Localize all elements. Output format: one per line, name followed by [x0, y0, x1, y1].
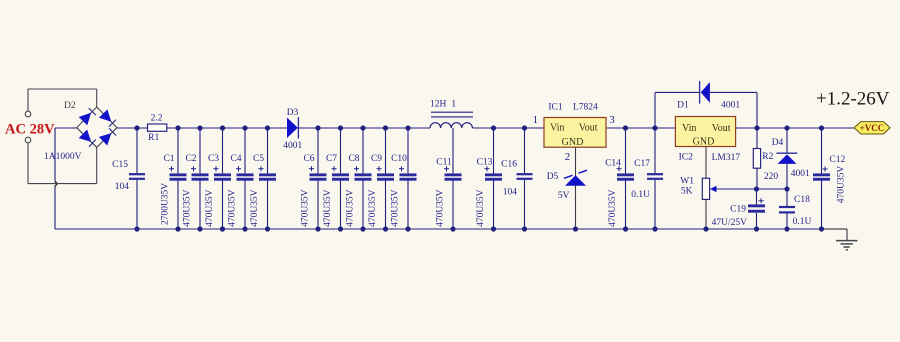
svg-text:3: 3: [609, 114, 615, 126]
svg-text:470U35V: 470U35V: [608, 189, 618, 227]
svg-text:C10: C10: [391, 154, 407, 164]
svg-text:Vout: Vout: [579, 123, 598, 134]
svg-text:GND: GND: [562, 137, 584, 148]
svg-text:Vin: Vin: [550, 123, 564, 134]
svg-text:C19: C19: [730, 205, 746, 215]
svg-text:C8: C8: [348, 154, 359, 164]
svg-text:4001: 4001: [791, 169, 810, 179]
svg-text:GND: GND: [693, 137, 715, 148]
svg-text:D2: D2: [64, 101, 76, 111]
svg-text:470U35V: 470U35V: [228, 189, 238, 227]
svg-text:220: 220: [764, 172, 779, 182]
svg-text:+1.2-26V: +1.2-26V: [816, 88, 890, 109]
svg-text:C12: C12: [829, 155, 845, 165]
svg-text:1A1000V: 1A1000V: [44, 152, 82, 162]
svg-text:R1: R1: [148, 133, 159, 143]
svg-text:4001: 4001: [283, 141, 302, 151]
svg-text:C6: C6: [303, 154, 314, 164]
svg-text:R2: R2: [762, 152, 773, 162]
svg-text:D5: D5: [547, 172, 559, 182]
svg-text:2700U35V: 2700U35V: [161, 183, 171, 225]
svg-text:470U35V: 470U35V: [301, 189, 311, 227]
svg-text:47U/25V: 47U/25V: [712, 218, 748, 228]
svg-text:C17: C17: [634, 159, 650, 169]
svg-text:104: 104: [115, 182, 130, 192]
svg-text:470U35V: 470U35V: [183, 189, 193, 227]
svg-text:C18: C18: [794, 195, 810, 205]
svg-text:C14: C14: [605, 159, 621, 169]
svg-text:470U35V: 470U35V: [346, 189, 356, 227]
svg-text:1: 1: [451, 100, 456, 110]
svg-text:C4: C4: [230, 154, 241, 164]
svg-text:470U35V: 470U35V: [323, 189, 333, 227]
svg-text:C3: C3: [208, 154, 219, 164]
svg-text:C2: C2: [185, 154, 196, 164]
svg-text:2.2: 2.2: [151, 114, 163, 124]
svg-text:C11: C11: [436, 158, 452, 168]
svg-text:1: 1: [533, 114, 539, 126]
svg-text:D4: D4: [772, 138, 784, 148]
svg-text:12H: 12H: [430, 100, 447, 110]
svg-text:0.1U: 0.1U: [631, 190, 650, 200]
svg-text:C5: C5: [253, 154, 264, 164]
svg-text:Vin: Vin: [682, 123, 696, 134]
svg-text:2: 2: [565, 151, 571, 163]
svg-text:5K: 5K: [681, 187, 693, 197]
svg-text:C16: C16: [501, 160, 517, 170]
svg-text:IC1: IC1: [548, 103, 563, 113]
svg-text:470U35V: 470U35V: [368, 189, 378, 227]
svg-text:4001: 4001: [721, 101, 740, 111]
svg-text:470U35V: 470U35V: [205, 189, 215, 227]
svg-text:LM317: LM317: [712, 153, 741, 163]
svg-text:0.1U: 0.1U: [793, 217, 812, 227]
svg-text:W1: W1: [680, 177, 694, 187]
svg-text:470U35V: 470U35V: [837, 166, 847, 204]
svg-text:C15: C15: [112, 160, 128, 170]
svg-text:470U35V: 470U35V: [250, 189, 260, 227]
svg-text:104: 104: [503, 188, 518, 198]
svg-text:AC 28V: AC 28V: [5, 122, 55, 138]
svg-text:D1: D1: [677, 101, 689, 111]
svg-text:+VCC: +VCC: [860, 123, 885, 133]
svg-text:5V: 5V: [558, 191, 570, 201]
svg-text:470U35V: 470U35V: [476, 189, 486, 227]
svg-text:C13: C13: [477, 158, 493, 168]
svg-text:C9: C9: [371, 154, 382, 164]
svg-text:Vout: Vout: [712, 123, 731, 134]
svg-text:C1: C1: [163, 154, 174, 164]
svg-text:470U35V: 470U35V: [391, 189, 401, 227]
svg-text:L7824: L7824: [573, 103, 598, 113]
svg-text:470U35V: 470U35V: [436, 189, 446, 227]
svg-text:D3: D3: [287, 108, 299, 118]
svg-text:C7: C7: [326, 154, 337, 164]
svg-text:IC2: IC2: [679, 153, 694, 163]
